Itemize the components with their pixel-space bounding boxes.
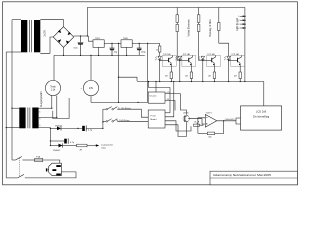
wire column B down	[199, 32, 203, 61]
svg-text:Lautsprecher: Lautsprecher	[101, 144, 113, 147]
junction dot T2 primary	[11, 108, 12, 109]
wire T1 primary top lead	[12, 19, 21, 21]
wire DCDC +15	[165, 94, 187, 115]
svg-text:4k7: 4k7	[234, 75, 237, 77]
wire feedback left	[198, 132, 207, 134]
resistor stage R1	[170, 72, 172, 79]
voltage regulator U2 7805	[121, 40, 132, 48]
wire relay row1	[103, 108, 106, 110]
wire stage Q2 LED to rail	[179, 60, 181, 82]
LED connector pin 3	[240, 23, 243, 25]
wire module out4	[165, 125, 187, 137]
wire column B mid	[198, 22, 200, 24]
svg-text:20k: 20k	[208, 137, 211, 139]
wire regulator1 input	[88, 36, 93, 41]
wire column C down	[218, 31, 220, 44]
wire module out3	[165, 121, 191, 131]
LCD display box	[241, 106, 282, 130]
svg-text:3: 3	[238, 24, 239, 26]
svg-text:Pr 20: Pr 20	[150, 114, 156, 117]
wire T1 primary bottom lead	[6, 51, 21, 53]
diode D2	[59, 144, 63, 148]
stage Q1 LED	[158, 56, 162, 59]
svg-text:TCP 1A5: TCP 1A5	[231, 53, 239, 56]
svg-text:LM 35: LM 35	[183, 112, 189, 114]
resistor R fb 20k	[207, 132, 214, 135]
resistor stage R3	[213, 72, 215, 79]
wire stage Q1 emitter	[170, 65, 172, 72]
junction dot row1	[77, 128, 78, 129]
optocoupler stage Q2 box	[182, 55, 196, 66]
wire module out2	[165, 82, 174, 117]
resistor R5 2R	[77, 144, 88, 147]
wire pot to opamp	[200, 124, 204, 125]
mains plug X1	[49, 163, 62, 175]
svg-text:TL071: TL071	[206, 112, 213, 114]
svg-text:13V: 13V	[89, 87, 94, 90]
wire lower +5 horizontal	[91, 101, 148, 103]
svg-text:relais: relais	[101, 147, 106, 150]
wire stage Q1 feed	[159, 43, 161, 46]
svg-text:2x15V: 2x15V	[45, 30, 47, 37]
arrow to relais	[96, 144, 99, 146]
capacitor C4 4700u	[82, 126, 85, 131]
stage Q3 LED	[201, 56, 205, 59]
wire column C	[218, 8, 220, 23]
bridge rectifier B1	[53, 27, 74, 48]
transformer T2 primary winding	[19, 108, 25, 129]
wire diode row1b	[61, 127, 82, 129]
switch gang link	[19, 158, 21, 176]
LED connector pin 4	[240, 27, 243, 29]
wire ground rail	[54, 54, 145, 56]
border frame	[3, 2, 298, 185]
LED connector pin 2	[240, 19, 243, 21]
svg-text:TCP 1A5: TCP 1A5	[183, 53, 191, 56]
junction dots on +5V wire	[139, 43, 140, 44]
svg-text:Gitarrenamp Netzteilsummer Ma: Gitarrenamp Netzteilsummer Mai 2005	[213, 174, 272, 177]
wire control drop	[118, 43, 120, 102]
meter circle M2 13V	[83, 80, 98, 95]
svg-text:Ausgangswahl: Ausgangswahl	[40, 91, 43, 107]
wire stage Q4 emitter	[239, 65, 241, 72]
wire row3 arrow	[87, 145, 96, 147]
resistor RA1	[176, 15, 178, 23]
svg-text:P: 100 Relais: P: 100 Relais	[118, 108, 132, 110]
wire column A	[176, 8, 178, 15]
DC-DC converter box	[148, 92, 165, 103]
wire feedback down	[215, 121, 224, 134]
junction dot LED line rail	[244, 81, 245, 82]
svg-text:1: 1	[238, 16, 239, 18]
wire rail to LCD	[263, 82, 265, 106]
wire T2 tap3	[39, 127, 51, 130]
svg-text:2k: 2k	[194, 122, 196, 124]
wire riser to top rail	[86, 8, 88, 37]
junction dot M1 lead	[51, 108, 52, 109]
wire U2 output +5V	[132, 42, 160, 44]
wire LCD input stub 1	[236, 118, 241, 121]
wire +5 drop to lower section	[147, 43, 149, 102]
svg-text:4k7: 4k7	[165, 75, 168, 77]
transformer T1 core	[30, 20, 32, 52]
svg-text:10m: 10m	[73, 48, 77, 50]
junction dot opamp out	[223, 120, 224, 121]
svg-text:0: 0	[39, 125, 40, 127]
wire T1 secondary top lead	[40, 20, 63, 27]
switch S1a	[16, 157, 22, 161]
wire collector jog	[219, 43, 229, 56]
transistor Q2	[188, 58, 190, 62]
junction dot rows	[50, 128, 51, 129]
stage Q2 LED	[178, 56, 182, 59]
wire stage Q1 feed2	[159, 52, 161, 56]
transformer T1 primary winding	[21, 20, 27, 52]
wire circle M2 riser	[90, 55, 92, 80]
wire stage Q1 LED to rail	[159, 60, 161, 82]
svg-text:Heizung 10 Ohm: Heizung 10 Ohm	[210, 19, 212, 36]
wire diode row2	[50, 140, 64, 142]
wire mains neutral vertical	[5, 52, 7, 178]
wire switch1 feed	[12, 159, 16, 161]
wire switch2 to plug	[25, 172, 76, 178]
svg-text:4: 4	[238, 28, 239, 30]
transformer T2 core	[28, 108, 30, 129]
wire stage Q1 base	[160, 60, 169, 62]
temperature sensor LM35	[184, 116, 186, 122]
potentiometer P1	[194, 124, 200, 126]
meter circle M1 Trafo	[45, 80, 60, 95]
wire relay row1 to module	[117, 109, 148, 117]
wire stage R2 to rail	[190, 79, 192, 82]
title block	[210, 171, 297, 185]
svg-text:TCP 1A5: TCP 1A5	[163, 53, 171, 56]
wire LM35 bottom	[186, 122, 188, 136]
svg-text:(100mV/K): (100mV/K)	[225, 119, 235, 121]
wire stage R4 to rail	[239, 79, 241, 82]
svg-text:7812: 7812	[95, 38, 101, 40]
junction dot stage Q4 base node	[228, 60, 229, 61]
junction dot T2 primary2	[6, 127, 7, 128]
relay contact K2	[106, 121, 108, 123]
wire rail drop right of DCDC	[149, 82, 171, 113]
transformer T1 secondary winding	[34, 20, 40, 52]
junction dot stage R2	[191, 81, 192, 82]
junction dot stage R4	[240, 81, 241, 82]
resistor RB2	[198, 24, 200, 31]
wire stage Q3 emitter	[213, 65, 215, 72]
wire opamp -in	[198, 118, 205, 134]
wire fuse feed	[22, 159, 34, 161]
transistor Q3	[211, 58, 213, 62]
wire DCDC -15	[165, 101, 175, 111]
wire diode row1	[50, 127, 57, 129]
svg-text:4k7: 4k7	[208, 75, 211, 77]
wire row1 to relays	[87, 127, 103, 129]
wire LM35 out	[188, 119, 205, 124]
wire top supply rail	[87, 7, 245, 9]
resistor RC1	[218, 23, 220, 31]
wire opamp out	[217, 120, 236, 122]
wire bridge + output	[74, 35, 89, 37]
wire diode row3	[50, 145, 58, 147]
optocoupler stage Q3 box	[207, 55, 221, 66]
wire column A down	[177, 32, 180, 61]
svg-text:F1A: F1A	[36, 155, 40, 158]
wire stage ground rail	[137, 81, 264, 83]
wire neutral to switch2	[6, 177, 18, 179]
junction dot stage Q3 base node	[202, 60, 203, 61]
wire T2 tap2	[39, 116, 57, 118]
transistor Q1	[168, 58, 170, 62]
wire column A mid	[176, 22, 178, 24]
junction dots stage rail	[159, 81, 160, 82]
wire stage Q1 collector	[172, 55, 174, 57]
wire stage Q2 emitter	[190, 65, 192, 72]
regulator U1 ground pin	[98, 47, 100, 55]
svg-text:2: 2	[238, 20, 239, 22]
wire M1 right lead down	[56, 96, 58, 118]
junction dot stage Q2 base node	[179, 60, 180, 61]
relay contact K1	[106, 108, 108, 110]
junction dots ground rail	[63, 55, 64, 56]
resistor RB1	[198, 15, 200, 23]
wire stage Q2 base	[180, 60, 189, 62]
wire T2 tap1	[39, 107, 52, 109]
resistor stage Q1 series	[159, 46, 161, 52]
junction dot rail dcdc	[155, 81, 156, 82]
junction dot stage R3	[214, 81, 215, 82]
junction dot control drop	[118, 77, 119, 78]
wire stage Q3 LED to rail	[202, 60, 204, 82]
wire M2 bottom lead	[90, 96, 92, 103]
wire bridge - output	[63, 47, 65, 55]
wire rail to DCDC	[155, 82, 157, 93]
optocoupler stage Q1 box	[162, 55, 176, 66]
svg-text:20s Intervall/tag: 20s Intervall/tag	[253, 115, 270, 118]
junction dot rail drop	[148, 81, 149, 82]
wire T1 secondary bottom lead	[40, 37, 53, 53]
wire stage Q3 collector	[215, 55, 217, 57]
wire relay row2	[103, 120, 106, 122]
voltage regulator U1 7812	[93, 40, 104, 48]
wire module out1	[165, 112, 170, 114]
svg-text:TCP 1A5: TCP 1A5	[207, 53, 215, 56]
wire rows vertical	[49, 128, 51, 145]
transformer T2 secondary winding	[32, 108, 38, 129]
svg-text:DC-DC: DC-DC	[150, 96, 157, 98]
svg-text:1k: 1k	[156, 49, 158, 51]
junction dot lower wire	[137, 102, 138, 103]
wire rail branch left	[119, 77, 138, 81]
junction dot out2	[173, 81, 174, 82]
svg-text:1N4007: 1N4007	[55, 126, 63, 128]
resistor stage R2	[190, 72, 192, 79]
svg-text:Modul: Modul	[150, 119, 156, 121]
junction dot stage Q1 base node	[159, 60, 160, 61]
wire fuse to plug	[43, 160, 60, 163]
stage Q4 LED	[227, 56, 231, 59]
wire LED connector down	[244, 8, 246, 82]
transistor Q4	[237, 58, 239, 62]
op-amp U3 TL071	[205, 115, 217, 128]
PIC module box	[148, 110, 165, 128]
wire LCD input stub 2	[236, 121, 241, 124]
capacitor C5	[64, 139, 67, 144]
plug earth terminal	[46, 168, 47, 171]
wire column B	[198, 8, 200, 15]
svg-text:Vollast Elemente: Vollast Elemente	[187, 19, 190, 37]
wire stage R3 to rail	[213, 79, 215, 82]
svg-text:4k7: 4k7	[185, 75, 188, 77]
wire relay row2 to module	[117, 120, 148, 122]
svg-text:7805: 7805	[123, 38, 129, 40]
svg-text:1:1k: 1:1k	[51, 89, 56, 92]
junction dot stage R1	[171, 81, 172, 82]
wire T2 primary top lead	[12, 107, 19, 109]
svg-text:6: 6	[39, 112, 40, 114]
junction dots U1 out	[111, 43, 112, 44]
wire U1 output	[104, 42, 121, 44]
svg-text:100µ: 100µ	[141, 51, 146, 53]
wire stage Q3 base	[203, 60, 212, 62]
switch S1b	[18, 174, 24, 178]
wire T2 primary bottom lead	[6, 127, 19, 129]
capacitor C3 100n	[137, 43, 142, 55]
wire stage Q4 collector	[240, 55, 242, 57]
wire diode row3b	[63, 145, 77, 147]
svg-text:1N4007: 1N4007	[53, 150, 61, 152]
capacitor C2 10u	[110, 43, 115, 55]
fuse F1	[35, 158, 43, 161]
wire stage R1 to rail	[170, 79, 172, 82]
wire stage Q4 LED to rail	[228, 60, 230, 82]
wire stage Q2 collector	[192, 55, 194, 57]
wire relay vertical	[102, 109, 104, 128]
svg-text:LCD 2x8: LCD 2x8	[256, 110, 267, 114]
svg-text:9: 9	[39, 118, 40, 120]
wire M1 left lead down	[51, 96, 53, 109]
wire T2 tap2b	[53, 98, 69, 119]
wire circle M1 riser	[53, 55, 55, 80]
capacitor C1 10m	[78, 36, 84, 55]
wire mains live vertical	[11, 20, 13, 160]
wire stage Q4 base	[229, 60, 238, 62]
diode D1	[57, 127, 61, 131]
optocoupler stage Q4 box	[231, 55, 245, 66]
resistor RA2	[176, 24, 178, 31]
junction dot relay v	[102, 121, 103, 122]
regulator U2 ground pin	[126, 47, 128, 55]
junction dot M2 top	[90, 55, 91, 56]
junction dots on + wire	[80, 35, 81, 36]
LED connector pin 1	[240, 15, 243, 17]
resistor stage R4	[239, 72, 241, 79]
